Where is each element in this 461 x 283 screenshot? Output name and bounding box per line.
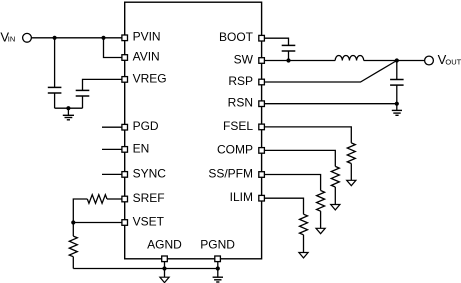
wire BOOT to C3 (264, 38, 288, 45)
pin BOOT square (259, 35, 265, 41)
node junction VOUT (395, 58, 399, 62)
capacitor C3 bootstrap (282, 45, 296, 60)
wire VIN to PVIN (31, 37, 122, 39)
wire ILIM (264, 198, 303, 214)
pin SS/PFM square (259, 172, 265, 178)
ground arrow ILIM (299, 253, 308, 258)
node junction input ground (66, 106, 70, 110)
capacitor C4 output (390, 61, 404, 104)
svg-text:SYNC: SYNC (133, 166, 167, 180)
wire VREG to C2 (83, 79, 122, 90)
ground earth symbol output (392, 104, 402, 116)
wire R4 to ground arrow (334, 187, 336, 205)
node junction PGND (216, 266, 220, 270)
wire COMP (264, 150, 335, 166)
svg-text:SW: SW (234, 52, 254, 66)
pin PGND square (215, 256, 221, 262)
op IC U1 buck converter body (125, 2, 262, 259)
wire R5 to ground arrow (320, 211, 322, 228)
wire AVIN hook from VIN node (104, 38, 122, 58)
wire ground rail C1-C2 (55, 107, 83, 109)
capacitor C1 input (48, 38, 62, 108)
pin RSN square (259, 101, 265, 107)
pin SW square (259, 58, 265, 64)
wire SS/PFM (264, 175, 320, 191)
svg-text:ILIM: ILIM (230, 190, 253, 204)
wire bottom ground rail (73, 268, 218, 270)
svg-text:AVIN: AVIN (133, 49, 160, 63)
node junction VSET (71, 220, 75, 224)
resistor R5 SS/PFM (317, 191, 325, 212)
pin SYNC square (122, 172, 128, 178)
pin EN square (122, 147, 128, 153)
svg-text:VREG: VREG (133, 71, 167, 85)
pin RSP square (259, 79, 265, 85)
pin PVIN square (122, 35, 128, 41)
svg-text:EN: EN (133, 141, 150, 155)
pin ILIM square (259, 195, 265, 201)
net label VOUT (438, 52, 461, 67)
inductor L1 (335, 56, 363, 61)
svg-text:AGND: AGND (147, 237, 182, 251)
pin PGD square (122, 124, 128, 130)
resistor R6 ILIM (300, 214, 308, 235)
wire SREF lead (107, 198, 122, 200)
pin SREF square (122, 196, 128, 202)
svg-text:PGD: PGD (133, 119, 159, 133)
ground arrow SS/PFM (316, 228, 325, 233)
pin AGND square (162, 256, 168, 262)
svg-text:VSET: VSET (133, 214, 165, 228)
wire PGND drop (217, 262, 219, 269)
svg-text:FSEL: FSEL (223, 119, 253, 133)
ground arrow FSEL (347, 180, 356, 185)
terminal VOUT circle (425, 56, 434, 65)
ground earth symbol PGND (213, 269, 223, 283)
pin FSEL square (259, 124, 265, 130)
pin VSET square (122, 220, 128, 226)
ground arrow AGND (160, 269, 169, 283)
capacitor C2 VREG bypass (76, 90, 90, 108)
wire R6 to ground arrow (303, 235, 305, 253)
wire RSN (264, 103, 396, 105)
pin VREG square (122, 77, 128, 83)
ground earth symbol input (63, 108, 74, 120)
svg-text:RSN: RSN (228, 96, 253, 110)
wire R3 to ground arrow (350, 164, 352, 181)
wire PGD stub (102, 126, 122, 128)
wire VSET (73, 222, 122, 224)
terminal VIN circle (23, 33, 32, 42)
svg-text:BOOT: BOOT (219, 30, 254, 44)
pin AVIN square (122, 55, 128, 61)
svg-text:OUT: OUT (445, 57, 461, 66)
net label VIN (0, 30, 15, 45)
resistor R3 FSEL (347, 143, 355, 164)
svg-text:RSP: RSP (228, 74, 253, 88)
node junction VIN-AVIN (101, 36, 105, 40)
wire SYNC stub (102, 173, 122, 175)
svg-text:SREF: SREF (133, 191, 165, 205)
svg-text:PVIN: PVIN (133, 30, 161, 44)
svg-text:COMP: COMP (217, 142, 253, 156)
resistor R2 VSET to ground (69, 223, 77, 269)
wire RSP remote sense (264, 61, 396, 83)
node junction SW-C3 (286, 58, 290, 62)
ground arrow COMP (331, 205, 340, 210)
wire EN stub (102, 148, 122, 150)
wire FSEL (264, 127, 351, 143)
svg-text:IN: IN (8, 35, 16, 44)
wire inductor to VOUT (364, 60, 425, 62)
svg-text:SS/PFM: SS/PFM (208, 166, 253, 180)
resistor R4 COMP (331, 166, 339, 187)
node junction AGND (162, 266, 166, 270)
wire SREF resistor to VSET node (73, 199, 87, 223)
node junction RSN ground (395, 102, 399, 106)
node junction VIN-C1 (53, 36, 57, 40)
pin COMP square (259, 148, 265, 154)
svg-text:PGND: PGND (200, 237, 235, 251)
wire SW to inductor (264, 60, 335, 62)
wire AGND drop (164, 262, 166, 269)
resistor R1 SREF (87, 195, 107, 204)
